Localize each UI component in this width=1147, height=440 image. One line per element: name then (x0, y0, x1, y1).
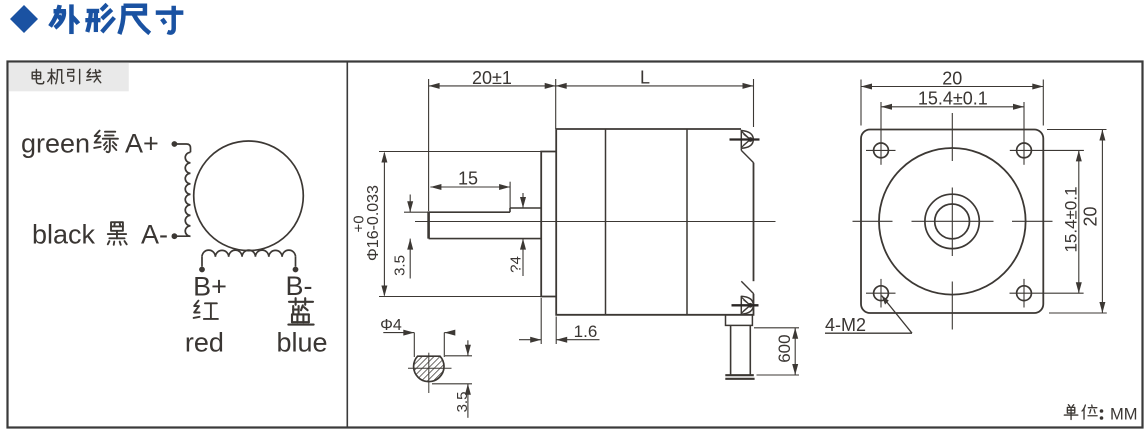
flange square (861, 130, 1043, 314)
pilot boss (541, 152, 556, 297)
svg-text:15: 15 (458, 169, 478, 189)
dim L (556, 85, 754, 87)
panel divider (346, 62, 348, 428)
dim 3.5 (section) (467, 340, 469, 356)
dim 15.4 right (1078, 150, 1080, 293)
shaft full top (510, 207, 541, 209)
terminal dot A- (172, 233, 178, 239)
arrows right view (861, 84, 1105, 314)
svg-text:Φ4: Φ4 (380, 317, 402, 334)
view centerline vertical (951, 113, 953, 330)
svg-text:L: L (640, 68, 650, 88)
dim phi4 (383, 332, 414, 334)
hole top-left (874, 143, 889, 158)
screw top (rear cover) (740, 130, 742, 149)
arrows middle view (381, 83, 798, 395)
wire A- (174, 235, 190, 237)
view centerline horizontal (853, 220, 1053, 222)
title diamond bullet (10, 5, 38, 33)
label 红 (194, 301, 218, 319)
terminal dot B+ (199, 267, 205, 273)
lead-wire connector (726, 315, 753, 326)
svg-text:green: green (21, 129, 90, 159)
wire B- (295, 257, 297, 267)
wire B+ (201, 257, 203, 267)
shaft circle (935, 204, 970, 239)
svg-text:B+: B+ (193, 272, 227, 302)
label 蓝 (288, 298, 313, 324)
hole bottom-right (1017, 286, 1032, 301)
motor body right edge segment (753, 163, 755, 282)
svg-text:20: 20 (1081, 206, 1101, 226)
dim ?4 (shaft dia) (522, 193, 524, 208)
wire A+ (174, 144, 190, 152)
pilot circle (879, 148, 1026, 295)
dim 20±1 (429, 85, 556, 87)
shaft flat top (429, 211, 510, 213)
dim 1.6 (boss height) (519, 339, 541, 341)
terminal dot A+ (172, 141, 178, 147)
terminal dot B- (293, 267, 299, 273)
shaft bottom (429, 238, 542, 240)
coil A (vertical, loops bulge left) (185, 152, 190, 236)
svg-text:MM: MM (1110, 406, 1138, 424)
svg-text:A-: A- (141, 220, 168, 250)
dim 20 right (1101, 130, 1103, 314)
4-M2 leader (825, 332, 912, 334)
dim 3.5 (flat depth) (409, 195, 411, 213)
svg-text:20: 20 (942, 69, 962, 89)
svg-text:3.5: 3.5 (454, 392, 471, 413)
svg-text:20±1: 20±1 (472, 68, 512, 88)
shaft end face (427, 211, 430, 238)
svg-text:4-M2: 4-M2 (825, 315, 866, 335)
dim 15.4 top (881, 106, 1024, 108)
title text 外形尺寸 (drawn glyphs) (50, 4, 183, 34)
hole bottom-left (874, 286, 889, 301)
svg-text:3.5: 3.5 (392, 255, 409, 276)
svg-text:15.4±0.1: 15.4±0.1 (1062, 186, 1081, 252)
svg-text:B-: B- (286, 271, 313, 301)
note 单位：MM (1064, 405, 1097, 420)
screw bottom (rear cover) (740, 296, 742, 315)
svg-text:black: black (32, 220, 96, 250)
dim phi16 (383, 153, 385, 296)
svg-text:red: red (185, 328, 224, 358)
svg-text:Φ16-0.033: Φ16-0.033 (365, 185, 382, 261)
motor circle (194, 141, 304, 251)
axis centerline (415, 221, 776, 223)
svg-text:1.6: 1.6 (574, 322, 598, 341)
svg-text:600: 600 (775, 334, 794, 362)
body section line 1 (605, 129, 607, 315)
dim 15 (430, 186, 510, 188)
label box 电机引线 (9, 63, 129, 92)
body section line 2 (686, 129, 688, 315)
dim 20 top (861, 86, 1043, 88)
svg-text:blue: blue (276, 328, 327, 358)
shaft step (509, 208, 511, 212)
section centerlines (408, 367, 452, 369)
coil B (horizontal, loops bulge up) (202, 250, 296, 257)
svg-text:?4: ?4 (508, 256, 525, 273)
bearing ring outer (925, 194, 979, 248)
svg-text:15.4±0.1: 15.4±0.1 (918, 88, 988, 108)
lead cable (730, 325, 732, 374)
hole top-right (1017, 143, 1032, 158)
dim 600 (cable length) (794, 328, 796, 375)
motor body outline (556, 129, 753, 315)
svg-text:A+: A+ (125, 129, 159, 159)
shaft section detail circle (414, 356, 444, 381)
screw center dots and lines (748, 137, 753, 142)
